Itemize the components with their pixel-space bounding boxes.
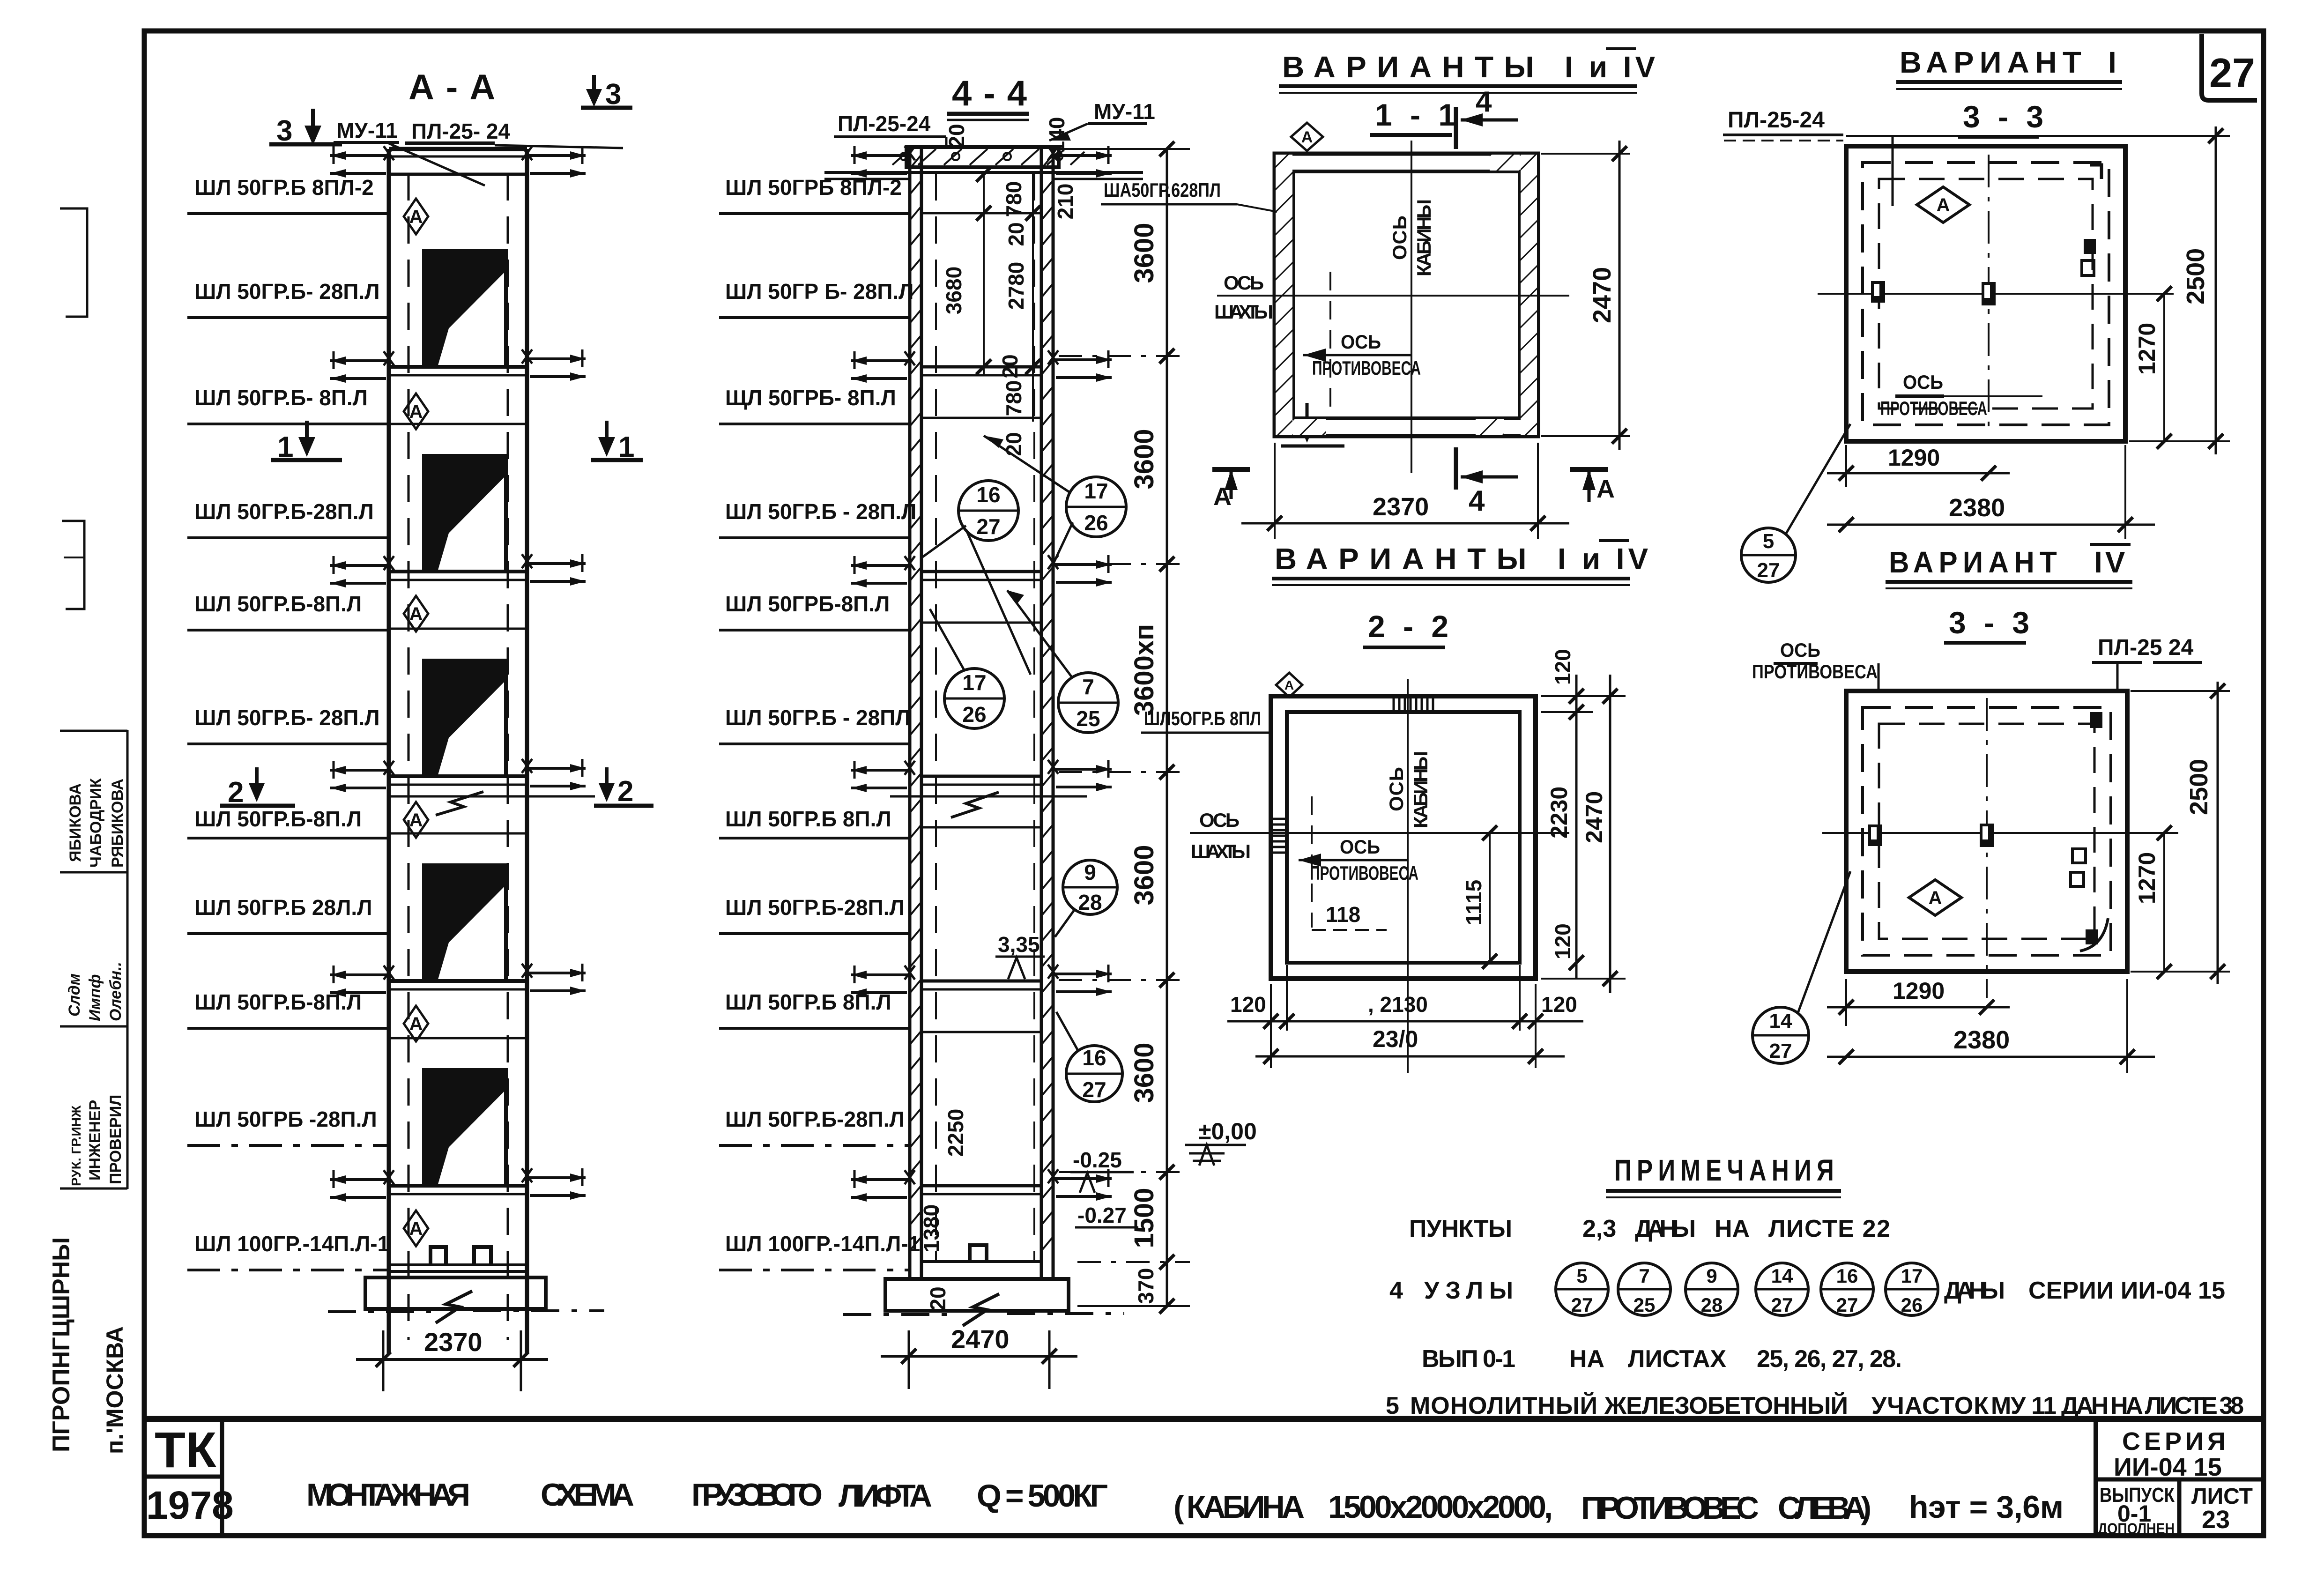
svg-text:27: 27 — [2209, 50, 2255, 96]
svg-text:1290: 1290 — [1893, 978, 1945, 1004]
svg-text:17: 17 — [1084, 479, 1108, 503]
svg-text:118: 118 — [1326, 902, 1360, 927]
dim 2380 bottom of 3-3 IV — [1827, 979, 2155, 1073]
plan 2-2 outer wall — [1271, 696, 1536, 979]
dim 118 of 2-2 — [1312, 902, 1387, 930]
svg-text:ШЛ 50ГР.Б-8П.Л: ШЛ 50ГР.Б-8П.Л — [194, 592, 362, 616]
svg-text:, 2130: , 2130 — [1368, 992, 1428, 1017]
interior slab lines + brackets middle shaft — [851, 213, 1112, 1202]
svg-text:780: 780 — [1002, 380, 1026, 416]
middle shaft pit — [921, 1245, 1041, 1262]
svg-text:20: 20 — [926, 1286, 950, 1310]
label ShL50GR.B 8PL of 2-2 — [1141, 707, 1272, 733]
note circle 17/26 — [1886, 1263, 1938, 1316]
svg-text:17: 17 — [1901, 1265, 1923, 1287]
svg-text:ПРОВЕРИЛ: ПРОВЕРИЛ — [107, 1095, 125, 1184]
svg-text:ОСЬ: ОСЬ — [1224, 272, 1264, 294]
svg-text:2: 2 — [617, 775, 633, 808]
diamond A of 3-3 IV — [1909, 880, 1961, 915]
node circle 5/27 — [1741, 424, 1850, 582]
svg-text:1 - 1: 1 - 1 — [1375, 97, 1460, 132]
label PL-25 24 of 3-3 IV — [2092, 635, 2202, 693]
svg-text:Олебн..: Олебн.. — [107, 962, 125, 1021]
svg-text:ВЫП 0-1: ВЫП 0-1 — [1422, 1345, 1515, 1373]
left shaft labels column — [187, 175, 389, 1270]
svg-text:2500: 2500 — [2182, 248, 2210, 305]
svg-text:ЛИСТАХ: ЛИСТАХ — [1628, 1345, 1726, 1373]
dim 2230 right of 2-2 — [1546, 675, 1584, 979]
rail bracket marks of 3-3 I — [1871, 281, 1996, 305]
title Variant I — [1896, 45, 2122, 89]
dim 2470 bottom of 4-4 — [881, 1324, 1077, 1389]
svg-text:5: 5 — [1386, 1392, 1399, 1419]
svg-text:2470: 2470 — [951, 1324, 1010, 1354]
svg-text:ВАРИАНТЫ: ВАРИАНТЫ — [1275, 542, 1537, 576]
svg-text:2370: 2370 — [424, 1327, 483, 1357]
svg-text:7: 7 — [1639, 1265, 1649, 1287]
svg-text:СЕРИЯ: СЕРИЯ — [2122, 1427, 2229, 1456]
svg-text:УЗЛЫ: УЗЛЫ — [1424, 1277, 1513, 1304]
svg-text:ПРОТИВОВЕС: ПРОТИВОВЕС — [1581, 1490, 1759, 1526]
svg-text:ПЛ-25 24: ПЛ-25 24 — [2098, 635, 2194, 660]
svg-text:1290: 1290 — [1888, 445, 1940, 471]
svg-text:120: 120 — [1230, 992, 1266, 1017]
label MU-11 of 4-4 — [1049, 99, 1155, 141]
svg-text:780: 780 — [1002, 181, 1026, 217]
svg-text:±0,00: ±0,00 — [1198, 1118, 1257, 1144]
svg-text:А: А — [1301, 128, 1313, 146]
svg-text:25: 25 — [1633, 1294, 1656, 1316]
svg-text:I: I — [2108, 45, 2116, 79]
svg-text:27: 27 — [1757, 559, 1780, 582]
svg-text:20: 20 — [944, 124, 969, 148]
svg-text:КАБИНЫ: КАБИНЫ — [1410, 751, 1432, 828]
svg-text:ВАРИАНТ: ВАРИАНТ — [1900, 45, 2087, 79]
title Variants I and IV — [1279, 49, 1659, 93]
rotated interior dims — [919, 117, 1077, 1311]
bottom dims of 2-2 — [1227, 965, 1583, 1068]
svg-text:ШЛ 100ГР.-14П.Л-1: ШЛ 100ГР.-14П.Л-1 — [725, 1232, 920, 1256]
svg-text:ОСЬ: ОСЬ — [1388, 215, 1411, 260]
svg-text:ПРОТИВОВЕСА: ПРОТИВОВЕСА — [1880, 397, 1987, 419]
svg-text:ПРОТИВОВЕСА: ПРОТИВОВЕСА — [1752, 661, 1878, 683]
svg-text:25: 25 — [1076, 706, 1100, 731]
svg-text:2230: 2230 — [1546, 787, 1572, 839]
svg-text:( КАБИНА: ( КАБИНА — [1173, 1489, 1305, 1525]
note circle 5/27 — [1556, 1263, 1608, 1316]
svg-text:23: 23 — [2202, 1506, 2230, 1534]
top floor lines extending beyond walls — [824, 146, 1143, 179]
svg-text:ЩЛ 50ГРБ- 8П.Л: ЩЛ 50ГРБ- 8П.Л — [725, 386, 896, 410]
svg-text:1270: 1270 — [2134, 323, 2160, 375]
svg-text:1500: 1500 — [1129, 1188, 1159, 1248]
plan 2-2 inner wall — [1287, 712, 1520, 963]
svg-text:25, 26, 27, 28.: 25, 26, 27, 28. — [1757, 1345, 1902, 1373]
svg-text:А: А — [1929, 888, 1942, 908]
svg-text:ШЛ 50ГР.Б - 28П.Л: ШЛ 50ГР.Б - 28П.Л — [725, 499, 916, 524]
label os shakhty of 1-1 — [1214, 272, 1273, 323]
svg-text:ПРИМЕЧАНИЯ: ПРИМЕЧАНИЯ — [1614, 1153, 1839, 1187]
svg-text:4: 4 — [1476, 86, 1492, 118]
svg-text:17: 17 — [962, 670, 986, 695]
svg-text:27: 27 — [1769, 1040, 1792, 1062]
level mark 0.00 bottom left — [0, 0, 0, 0]
svg-text:ПРОТИВОВЕСА: ПРОТИВОВЕСА — [1310, 862, 1418, 884]
rotated names — [66, 778, 126, 1186]
left shaft pit — [389, 1247, 527, 1271]
svg-text:МУ-11: МУ-11 — [336, 118, 398, 142]
svg-text:ОСЬ: ОСЬ — [1341, 331, 1381, 353]
shaft axis horizontal of 1-1 — [1217, 295, 1569, 297]
axis horizontal of 2-2 — [1190, 832, 1569, 834]
svg-text:ОСЬ: ОСЬ — [1903, 371, 1943, 393]
label ShA50GR.628PL of 1-1 — [1101, 179, 1277, 212]
svg-text:27: 27 — [976, 514, 1000, 539]
svg-text:140: 140 — [1045, 117, 1069, 153]
svg-text:4: 4 — [1469, 485, 1485, 517]
svg-text:РЯБИКОВА: РЯБИКОВА — [109, 779, 126, 868]
svg-text:МУ-11: МУ-11 — [1094, 99, 1155, 124]
rotated dims on right line — [1129, 223, 1159, 1304]
svg-text:120: 120 — [1541, 992, 1577, 1017]
svg-text:1270: 1270 — [2134, 852, 2160, 904]
svg-text:А: А — [409, 401, 423, 422]
svg-text:ОСЬ: ОСЬ — [1385, 767, 1407, 811]
diamond A of 3-3 I — [1917, 187, 1969, 223]
svg-text:Q = 500КГ: Q = 500КГ — [977, 1478, 1108, 1514]
svg-text:hэт = 3,6м: hэт = 3,6м — [1909, 1489, 2064, 1525]
svg-text:1978: 1978 — [146, 1483, 234, 1527]
svg-text:1115: 1115 — [1462, 880, 1486, 925]
svg-text:2380: 2380 — [1953, 1026, 2010, 1054]
svg-text:А: А — [409, 1014, 423, 1034]
node circle 17/26 lower — [930, 609, 1004, 728]
svg-text:ОСЬ: ОСЬ — [1199, 809, 1240, 831]
small boxes right of 3-3 IV — [2072, 849, 2086, 863]
svg-text:27: 27 — [1571, 1294, 1593, 1316]
svg-text:5: 5 — [1763, 530, 1774, 553]
svg-text:3,35: 3,35 — [998, 932, 1040, 957]
section mark 3 right — [581, 75, 632, 111]
svg-text:4: 4 — [1389, 1277, 1403, 1304]
svg-text:2370: 2370 — [1373, 493, 1429, 521]
svg-text:ДОПОЛНЕН: ДОПОЛНЕН — [2098, 1520, 2175, 1537]
section mark 2 right — [594, 767, 653, 808]
svg-text:ШЛ5ОГР.Б 8ПЛ: ШЛ5ОГР.Б 8ПЛ — [1144, 707, 1261, 729]
svg-text:А - А: А - А — [408, 67, 496, 107]
middle shaft labels column — [719, 175, 920, 1270]
svg-text:ШЛ 50ГР.Б- 28П.Л: ШЛ 50ГР.Б- 28П.Л — [194, 706, 380, 730]
dim 2470 right of 1-1 — [1541, 141, 1630, 450]
svg-text:14: 14 — [1771, 1265, 1793, 1287]
svg-text:МОНОЛИТНЫЙ: МОНОЛИТНЫЙ — [1410, 1392, 1597, 1419]
svg-text:IV: IV — [2094, 545, 2128, 579]
svg-text:ОСЬ: ОСЬ — [1340, 836, 1380, 858]
subtitle 1-1 — [1370, 97, 1460, 135]
margin bracket upper — [60, 208, 87, 317]
dim 2380 bottom of 3-3 I — [1827, 445, 2155, 539]
cab axis vertical of 1-1 — [1411, 141, 1412, 473]
+-0.00 level mark — [1185, 1118, 1257, 1166]
label os shakhty of 2-2 — [1191, 809, 1251, 862]
svg-text:120: 120 — [1551, 649, 1575, 685]
floor slab lines + brackets left shaft — [330, 349, 586, 424]
axis lines of 3-3 IV — [1822, 832, 2178, 834]
section mark 1 left — [271, 421, 342, 463]
label os protivovesa of 3-3 I — [1880, 371, 2042, 419]
dim 2370 bottom of A-A — [356, 1327, 548, 1391]
svg-text:2,3: 2,3 — [1582, 1215, 1616, 1242]
svg-text:КАБИНЫ: КАБИНЫ — [1413, 199, 1435, 276]
small boxes right of 3-3 I — [2084, 239, 2096, 254]
wall panel diamond markers A — [404, 199, 428, 1246]
svg-text:120: 120 — [1551, 923, 1575, 959]
door opening floor1 with black leaf — [424, 251, 506, 367]
dim 1290 bottom of 3-3 I — [1827, 445, 2010, 487]
svg-text:ЛИСТЕ 22: ЛИСТЕ 22 — [1768, 1215, 1890, 1242]
svg-text:ШЛ 50ГР.Б-28П.Л: ШЛ 50ГР.Б-28П.Л — [725, 1107, 905, 1131]
dim 2500 right of 3-3 I — [1846, 126, 2230, 454]
svg-text:5: 5 — [1576, 1265, 1587, 1287]
dashed panel outline 2 of 3-3 IV — [1879, 724, 2094, 939]
svg-text:7: 7 — [1082, 675, 1094, 699]
dim 1270 inner right of 3-3 I — [2134, 286, 2172, 449]
left shaft foundation — [328, 1277, 604, 1323]
svg-text:СХЕМА: СХЕМА — [541, 1477, 634, 1513]
svg-text:ИИ-04 15: ИИ-04 15 — [2114, 1453, 2222, 1481]
svg-text:МУ 11: МУ 11 — [1991, 1392, 2057, 1419]
svg-text:27: 27 — [1771, 1294, 1793, 1316]
svg-text:Импф: Импф — [86, 974, 104, 1021]
svg-text:ШЛ 50ГР.Б-8П.Л: ШЛ 50ГР.Б-8П.Л — [194, 807, 362, 831]
label PL-25-24 of 4-4 — [834, 111, 946, 149]
subtitle 3-3 — [1958, 99, 2048, 137]
hatch patch left wall of 2-2 — [1272, 819, 1286, 853]
node circle 16/27 lower — [1056, 1012, 1122, 1102]
svg-text:210: 210 — [1053, 184, 1077, 220]
plan 3-3 IV outer wall — [1846, 691, 2127, 972]
svg-text:ДАНЫ: ДАНЫ — [1635, 1215, 1696, 1242]
note circle 16/27 — [1821, 1263, 1873, 1316]
corner mark top right of 3-3 I — [2090, 165, 2101, 179]
dim 1290 bottom of 3-3 IV — [1827, 978, 2010, 1026]
door opening floor2 — [424, 456, 506, 572]
middle shaft left wall (hatched) — [910, 149, 921, 1279]
svg-text:ШАХТЫ: ШАХТЫ — [1214, 301, 1273, 323]
svg-text:20: 20 — [1004, 222, 1028, 246]
label os protivovesa top of 3-3 IV — [1752, 639, 1879, 693]
section mark 1 right — [591, 421, 643, 463]
left shaft walls — [389, 149, 527, 1354]
svg-text:3680: 3680 — [942, 267, 966, 314]
svg-text:ШЛ 50ГР.Б - 28ПЛ: ШЛ 50ГР.Б - 28ПЛ — [725, 706, 911, 730]
node circle 9/28 — [1055, 860, 1117, 937]
notes line 4 — [1386, 1392, 2244, 1419]
section mark A left bottom — [1212, 469, 1250, 511]
axis lines of 3-3 I — [1818, 293, 2174, 295]
svg-text:А: А — [409, 810, 423, 831]
hatch patch top wall of 2-2 — [1394, 697, 1433, 711]
svg-text:А: А — [1596, 475, 1615, 503]
node circle 16/27 upper — [922, 481, 1031, 675]
svg-text:3 - 3: 3 - 3 — [1963, 99, 2048, 134]
label PL-25-24 top — [405, 119, 623, 150]
svg-text:20: 20 — [1002, 432, 1026, 456]
svg-text:СЕРИИ ИИ-04 15: СЕРИИ ИИ-04 15 — [2028, 1277, 2225, 1304]
svg-text:26: 26 — [1901, 1294, 1923, 1316]
svg-text:ПЛ-25-24: ПЛ-25-24 — [838, 111, 931, 136]
svg-text:16: 16 — [1836, 1265, 1858, 1287]
dim 2500 right of 3-3 IV — [2131, 682, 2230, 984]
title block top line — [144, 1416, 2264, 1422]
counterweight axis dashed of 1-1 — [1329, 272, 1331, 417]
sheet number box 27 — [2202, 34, 2257, 100]
label PL-25-24 of 3-3 I — [1723, 108, 1893, 206]
svg-text:УЧАСТОК: УЧАСТОК — [1871, 1392, 1989, 1419]
svg-text:ПРОТИВОВЕСА: ПРОТИВОВЕСА — [1312, 357, 1421, 379]
subtitle 3-3 of variant IV — [1944, 605, 2034, 643]
svg-text:ША50ГР.628ПЛ: ША50ГР.628ПЛ — [1104, 179, 1221, 201]
svg-text:9: 9 — [1084, 860, 1096, 884]
cab axis vertical of 2-2 — [1407, 679, 1409, 1073]
svg-text:ШЛ 50ГР.Б-8П.Л: ШЛ 50ГР.Б-8П.Л — [194, 990, 362, 1014]
svg-text:ПЛ-25-24: ПЛ-25-24 — [1728, 108, 1825, 133]
plan 1-1 inner wall — [1293, 171, 1520, 418]
node circle 14/27 — [1752, 871, 1850, 1063]
elevation -0.27 mark — [1075, 1203, 1138, 1227]
dim 1115 of 2-2 — [1462, 825, 1497, 969]
svg-text:I и IV: I и IV — [1558, 542, 1652, 576]
margin bracket middle — [62, 521, 84, 609]
dim 2370 bottom of 1-1 — [1241, 443, 1569, 539]
svg-text:А: А — [409, 1218, 423, 1239]
rail bracket marks of 3-3 IV — [1868, 824, 1994, 847]
svg-text:-0.25: -0.25 — [1073, 1148, 1122, 1172]
svg-text:20: 20 — [998, 354, 1022, 378]
section mark 4 bottom — [1456, 447, 1518, 517]
svg-text:ВАРИАНТ: ВАРИАНТ — [1889, 545, 2062, 579]
label os kabiny rotated of 2-2 — [1385, 751, 1432, 828]
svg-text:А: А — [409, 207, 423, 227]
svg-text:3600: 3600 — [1129, 1042, 1159, 1103]
svg-text:ОСЬ: ОСЬ — [1780, 639, 1820, 661]
svg-text:16: 16 — [976, 483, 1000, 507]
svg-text:п.'МОСКВА: п.'МОСКВА — [102, 1326, 128, 1454]
wall hatching strokes — [910, 155, 1053, 1251]
elevation -0.25 mark — [1070, 1148, 1134, 1193]
diamond A marker top-left of 1-1 — [1291, 123, 1323, 151]
svg-text:ЖЕЛЕЗОБЕТОННЫЙ: ЖЕЛЕЗОБЕТОННЫЙ — [1604, 1392, 1848, 1419]
names table — [60, 730, 127, 1189]
section mark A right bottom — [1570, 469, 1615, 503]
svg-text:ЛИФТА: ЛИФТА — [839, 1478, 932, 1514]
notes line 2 with node circles — [1389, 1277, 2225, 1304]
svg-text:ШАХТЫ: ШАХТЫ — [1191, 840, 1251, 862]
svg-text:ПУНКТЫ: ПУНКТЫ — [1409, 1215, 1512, 1242]
right tall dimension line of 4-4 — [1059, 141, 1190, 1314]
svg-text:А: А — [409, 604, 423, 624]
svg-text:28: 28 — [1701, 1294, 1723, 1316]
node circle 7/25 — [1007, 590, 1118, 733]
svg-text:2380: 2380 — [1949, 494, 2005, 522]
svg-text:ШЛ 50ГР.Б- 28П.Л: ШЛ 50ГР.Б- 28П.Л — [194, 279, 380, 304]
svg-text:ШЛ 50ГР.Б 28Л.Л: ШЛ 50ГР.Б 28Л.Л — [194, 895, 372, 920]
top support brackets — [330, 146, 394, 178]
svg-text:2500: 2500 — [2185, 759, 2213, 815]
corner marks of 3-3 IV — [2090, 712, 2102, 728]
svg-text:1380: 1380 — [919, 1204, 943, 1252]
svg-text:ПГРОПНГЦШРНЫ: ПГРОПНГЦШРНЫ — [48, 1237, 75, 1452]
notes title — [1606, 1153, 1841, 1197]
svg-text:ШЛ 50ГР.Б- 8П.Л: ШЛ 50ГР.Б- 8П.Л — [194, 386, 368, 410]
svg-text:НА: НА — [1569, 1345, 1604, 1373]
door opening floor5 — [424, 1070, 506, 1186]
label os kabiny (rotated) of 1-1 — [1388, 199, 1435, 276]
svg-text:ШЛ 50ГР.Б 8ПЛ-2: ШЛ 50ГР.Б 8ПЛ-2 — [194, 175, 374, 200]
section mark 2 left — [220, 767, 295, 809]
svg-text:2470: 2470 — [1588, 267, 1616, 323]
dim 2470 right of 2-2 — [1541, 675, 1626, 993]
dim 1270 right of 3-3 IV — [2134, 825, 2172, 979]
diamond marker top-left of 2-2 — [1276, 673, 1302, 697]
dashed panel outline 2 — [1879, 179, 2093, 408]
series box — [2096, 1419, 2264, 1537]
svg-text:ЧАБОДРИК: ЧАБОДРИК — [87, 778, 105, 868]
notes line 3 — [1422, 1345, 1902, 1373]
label MU-11 — [334, 118, 485, 186]
svg-text:26: 26 — [1084, 511, 1108, 535]
svg-text:3 - 3: 3 - 3 — [1949, 605, 2034, 640]
title Variants I and IV lower — [1272, 541, 1652, 585]
plan 3-3 I outer wall — [1846, 146, 2125, 441]
svg-text:I и IV: I и IV — [1565, 50, 1659, 84]
svg-text:2 - 2: 2 - 2 — [1368, 609, 1453, 644]
svg-text:Слдм: Слдм — [66, 973, 83, 1017]
svg-text:ШЛ 50ГРБ -28П.Л: ШЛ 50ГРБ -28П.Л — [194, 1107, 377, 1131]
svg-text:23/0: 23/0 — [1373, 1026, 1418, 1052]
svg-text:ШЛ 50ГР.Б-28П.Л: ШЛ 50ГР.Б-28П.Л — [725, 895, 905, 920]
svg-text:ШЛ 50ГР.Б 8П.Л: ШЛ 50ГР.Б 8П.Л — [725, 990, 891, 1014]
svg-text:А: А — [1213, 483, 1232, 511]
svg-text:-0.27: -0.27 — [1077, 1203, 1127, 1227]
svg-text:ШЛ 50ГРБ-8П.Л: ШЛ 50ГРБ-8П.Л — [725, 592, 890, 616]
svg-text:2780: 2780 — [1004, 262, 1028, 310]
svg-text:3600: 3600 — [1129, 429, 1159, 489]
dim 120 top right of 2-2 — [1541, 649, 1626, 720]
svg-text:А: А — [1937, 195, 1950, 215]
svg-text:ШЛ 50ГР.Б 8П.Л: ШЛ 50ГР.Б 8П.Л — [725, 807, 891, 831]
svg-text:16: 16 — [1082, 1046, 1106, 1070]
svg-text:3600хп: 3600хп — [1129, 624, 1159, 716]
section mark 3 left — [269, 109, 342, 147]
svg-text:ИНЖЕНЕР: ИНЖЕНЕР — [86, 1100, 104, 1181]
svg-text:ДАН НА ЛИСТЕ 38: ДАН НА ЛИСТЕ 38 — [2061, 1392, 2244, 1419]
svg-text:А: А — [1285, 678, 1294, 692]
door opening floor3 — [424, 661, 506, 776]
svg-text:27: 27 — [1082, 1077, 1106, 1102]
label os protivovesa of 1-1 — [1303, 331, 1421, 379]
left shaft top slab — [389, 149, 527, 174]
middle shaft interior dashed lines — [935, 173, 937, 1260]
svg-text:ГРУЗОВОГО: ГРУЗОВОГО — [691, 1477, 823, 1513]
section mark 4 top — [1456, 86, 1518, 149]
svg-text:ВАРИАНТЫ: ВАРИАНТЫ — [1282, 50, 1544, 84]
svg-text:1500х2000х2000,: 1500х2000х2000, — [1328, 1489, 1553, 1525]
counterweight axis dashed of 2-2 — [1311, 796, 1313, 928]
middle shaft interior dim lines — [976, 167, 1040, 422]
svg-text:26: 26 — [962, 702, 986, 727]
svg-text:ЯБИКОВА: ЯБИКОВА — [67, 783, 84, 862]
